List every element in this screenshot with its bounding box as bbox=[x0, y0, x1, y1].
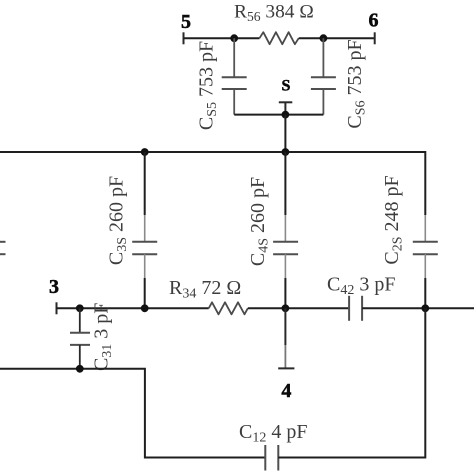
junction dot main/C3S bbox=[141, 148, 149, 156]
wire node5 to R56 bbox=[184, 37, 260, 39]
junction dot node4 bbox=[282, 304, 290, 312]
junction dot node S bbox=[282, 111, 290, 119]
junction dot right bbox=[421, 304, 429, 312]
svg-text:6: 6 bbox=[369, 10, 379, 32]
junction dot top of CS6 bbox=[320, 34, 328, 42]
wire top-right corner down bbox=[424, 151, 426, 215]
svg-text:R34 72 Ω: R34 72 Ω bbox=[169, 277, 241, 302]
svg-text:S: S bbox=[282, 78, 291, 95]
capacitor CS5 bbox=[233, 38, 235, 77]
wire S to main wire bbox=[284, 115, 286, 152]
capacitor C3S bbox=[144, 152, 146, 215]
main horizontal wire bbox=[0, 151, 425, 153]
resistor R56 bbox=[260, 32, 299, 44]
svg-text:C42 3 pF: C42 3 pF bbox=[327, 274, 395, 299]
node S stub bbox=[284, 102, 286, 114]
svg-text:3: 3 bbox=[49, 276, 59, 298]
node 4 terminal tick bbox=[278, 367, 294, 369]
junction dot main/C4S bbox=[282, 148, 290, 156]
resistor R34 bbox=[209, 302, 248, 314]
wire R34 to C42 bbox=[248, 307, 349, 309]
capacitor C12 bbox=[264, 445, 266, 471]
svg-text:5: 5 bbox=[181, 11, 191, 33]
junction dot top of CS5 bbox=[230, 34, 238, 42]
node 4 stub bbox=[284, 308, 286, 345]
node 5 terminal tick bbox=[183, 32, 185, 44]
svg-text:4: 4 bbox=[281, 380, 291, 402]
node S terminal tick bbox=[279, 101, 293, 103]
svg-text:R56 384 Ω: R56 384 Ω bbox=[234, 1, 314, 24]
svg-text:C31 3 pF: C31 3 pF bbox=[91, 303, 116, 371]
junction dot C31 top bbox=[76, 304, 84, 312]
junction dot C3S bottom bbox=[141, 304, 149, 312]
svg-text:C12 4 pF: C12 4 pF bbox=[239, 421, 307, 446]
capacitor C31 bbox=[79, 308, 81, 333]
wire C42 to right edge bbox=[362, 307, 474, 309]
capacitor C2S bbox=[413, 241, 438, 243]
capacitor CS6 bbox=[322, 38, 324, 77]
cropped capacitor C1S at left edge bbox=[0, 241, 6, 243]
node 3 terminal tick bbox=[56, 302, 58, 314]
node 6 terminal tick bbox=[374, 32, 376, 44]
wire C12 to right corner up bbox=[278, 308, 425, 457]
wire CS5 bottom to CS6 bottom bbox=[234, 114, 323, 116]
junction dot C31 bottom bbox=[76, 365, 84, 373]
capacitor C4S bbox=[284, 152, 286, 215]
capacitor C42 bbox=[348, 296, 350, 321]
wire node3 to R34 bbox=[57, 307, 209, 309]
wire R56 to node6 bbox=[299, 37, 375, 39]
wire bottom left bbox=[0, 369, 265, 458]
